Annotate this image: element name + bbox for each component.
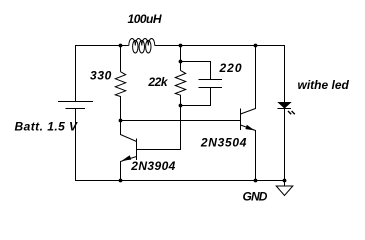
resistor R1 330 [115,46,125,121]
node dot top rail / Q2 collector [254,44,258,48]
ground symbol [276,181,293,196]
inductor L1 100uH [129,39,155,53]
wire battery plus lead up [75,45,77,102]
wire battery minus lead down [75,109,77,181]
svg-text:220: 220 [218,61,242,75]
transistor Q2 2N3504 [241,46,256,181]
wire top rail left of inductor [75,45,129,47]
node dot top rail / 22k [179,44,183,48]
svg-text:2N3904: 2N3904 [130,159,175,173]
node dot top rail / 330 [119,44,123,48]
svg-text:330: 330 [90,69,112,83]
LED D1 white led [278,46,295,181]
battery B1 [58,102,93,109]
transistor Q1 2N3904 [121,121,137,181]
node dot LED cathode / ground [283,179,287,183]
svg-text:2N3504: 2N3504 [200,135,247,149]
svg-text:22k: 22k [147,75,169,89]
svg-text:withe led: withe led [298,78,350,92]
svg-text:Batt. 1.5 V: Batt. 1.5 V [15,119,79,133]
svg-text:100uH: 100uH [128,12,162,26]
node dot Q1 emitter / ground rail [119,179,123,183]
wire 22k/cap bottom down to Q1 base [137,106,181,150]
node dot 330 bottom / Q1 collector [119,119,123,123]
node dot 22k top / cap top [179,60,183,64]
wire top rail right of inductor [155,45,285,47]
wire bottom ground rail [75,180,285,182]
node dot 22k bottom / cap bottom / Q1 base [179,104,183,108]
resistor R2 22k [175,46,185,106]
node dot Q2 emitter / ground rail [254,179,258,183]
wire node A horizontal (330/Q1 collector to Q2 base) [121,120,241,122]
capacitor C1 220 [181,62,223,106]
svg-text:GND: GND [243,189,268,203]
